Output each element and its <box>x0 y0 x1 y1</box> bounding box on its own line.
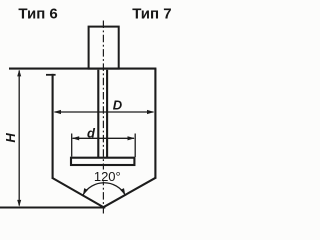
svg-text:H: H <box>3 133 18 143</box>
svg-text:120°: 120° <box>94 169 121 184</box>
svg-text:Тип 6: Тип 6 <box>18 5 57 22</box>
svg-text:D: D <box>113 98 123 113</box>
svg-text:d: d <box>87 125 96 140</box>
svg-text:Тип 7: Тип 7 <box>132 5 171 22</box>
